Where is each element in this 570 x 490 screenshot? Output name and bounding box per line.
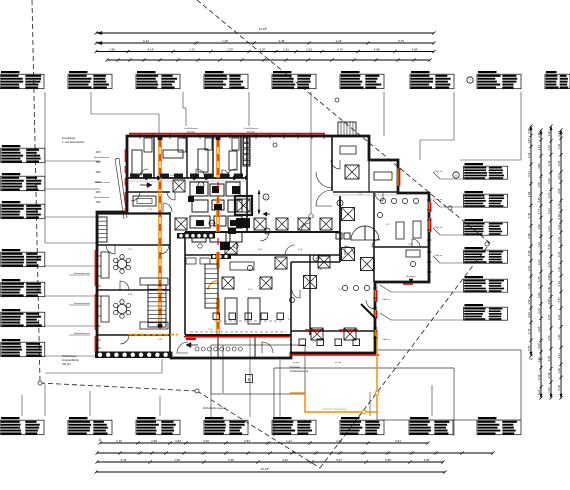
svg-text:Freispielfläche: Freispielfläche	[62, 358, 79, 362]
svg-text:5,20: 5,20	[547, 130, 551, 136]
svg-text:24,18⁵: 24,18⁵	[259, 27, 269, 31]
svg-text:3,80: 3,80	[537, 224, 541, 230]
svg-text:1,37: 1,37	[527, 328, 531, 334]
svg-text:3,65: 3,65	[537, 326, 541, 332]
svg-text:1,50: 1,50	[527, 299, 531, 305]
svg-text:5,67: 5,67	[557, 297, 561, 303]
svg-text:6,51: 6,51	[527, 265, 531, 271]
svg-text:5,43: 5,43	[121, 458, 127, 462]
svg-text:4,41: 4,41	[557, 353, 561, 359]
svg-text:6,79: 6,79	[337, 47, 343, 51]
svg-text:3,10: 3,10	[116, 439, 122, 443]
svg-text:xx xxx: xx xxx	[293, 362, 300, 364]
svg-text:Türkl. xx: Türkl. xx	[434, 198, 443, 201]
svg-text:5,87: 5,87	[260, 47, 266, 51]
svg-text:1,68: 1,68	[174, 458, 180, 462]
svg-text:4,86: 4,86	[537, 163, 541, 169]
svg-text:1,66: 1,66	[557, 368, 561, 374]
svg-text:6,53: 6,53	[557, 251, 561, 257]
svg-text:6,16: 6,16	[557, 203, 561, 209]
svg-text:1,78: 1,78	[547, 160, 551, 166]
svg-text:3,77: 3,77	[547, 226, 551, 232]
svg-text:1,97: 1,97	[537, 241, 541, 247]
svg-text:1,39: 1,39	[527, 283, 531, 289]
svg-text:2,64: 2,64	[557, 314, 561, 320]
svg-text:Bestandsfenster: Bestandsfenster	[74, 272, 90, 275]
svg-text:1,21: 1,21	[189, 47, 195, 51]
svg-text:6,93: 6,93	[557, 213, 561, 219]
svg-text:4,69: 4,69	[557, 188, 561, 194]
svg-text:5,64: 5,64	[547, 243, 551, 249]
svg-text:4,76: 4,76	[547, 335, 551, 341]
svg-text:5,47: 5,47	[336, 458, 342, 462]
svg-text:2,23: 2,23	[336, 39, 342, 43]
svg-text:6,78: 6,78	[537, 276, 541, 282]
svg-text:4,38: 4,38	[374, 47, 380, 51]
svg-text:5,25: 5,25	[228, 458, 234, 462]
svg-text:Türkl. xx: Türkl. xx	[382, 338, 391, 341]
svg-text:Bestandsfenster: Bestandsfenster	[94, 156, 110, 159]
svg-text:3,83: 3,83	[424, 458, 430, 462]
svg-text:2,79: 2,79	[547, 261, 551, 267]
svg-text:2,26: 2,26	[547, 178, 551, 184]
svg-text:4,86: 4,86	[537, 197, 541, 203]
svg-text:xx xxx: xx xxx	[335, 362, 342, 364]
svg-text:3,92: 3,92	[537, 292, 541, 298]
svg-text:Bestandsfenster: Bestandsfenster	[94, 196, 110, 199]
svg-text:1,53: 1,53	[547, 387, 551, 393]
svg-text:1. vermaute Einheit: 1. vermaute Einheit	[62, 140, 85, 144]
svg-text:Türkl. xx: Türkl. xx	[434, 170, 443, 173]
svg-text:6,89: 6,89	[385, 458, 391, 462]
svg-text:Dachfl.fenster: Dachfl.fenster	[244, 127, 258, 130]
svg-text:5,50: 5,50	[527, 345, 531, 351]
svg-text:5,38: 5,38	[527, 250, 531, 256]
svg-text:6,24: 6,24	[143, 39, 149, 43]
svg-text:1,81: 1,81	[283, 47, 289, 51]
svg-text:Zufahrt Tiefgarage: Zufahrt Tiefgarage	[323, 407, 348, 411]
svg-text:5,32: 5,32	[537, 374, 541, 380]
svg-text:Terrasse: Terrasse	[290, 365, 301, 369]
svg-text:Bestand saniert: Bestand saniert	[95, 181, 111, 184]
svg-text:6,79: 6,79	[398, 39, 404, 43]
svg-text:6,22: 6,22	[557, 224, 561, 230]
svg-text:4,44: 4,44	[527, 212, 531, 218]
svg-text:Dachfl.fenster: Dachfl.fenster	[184, 127, 198, 130]
svg-text:2,34: 2,34	[557, 281, 561, 287]
svg-text:1,72: 1,72	[547, 145, 551, 151]
svg-text:E: E	[248, 377, 251, 382]
svg-text:Wohnfläche gesamt: Wohnfläche gesamt	[203, 406, 226, 410]
svg-text:5,31: 5,31	[547, 208, 551, 214]
svg-text:4,44: 4,44	[527, 312, 531, 318]
svg-text:4,22: 4,22	[336, 439, 342, 443]
svg-text:4,25: 4,25	[547, 355, 551, 361]
svg-text:6,24: 6,24	[537, 259, 541, 265]
svg-text:2,49: 2,49	[547, 286, 551, 292]
svg-text:1,45: 1,45	[222, 39, 228, 43]
svg-text:6,57: 6,57	[547, 314, 551, 320]
svg-text:1,22: 1,22	[557, 143, 561, 149]
svg-text:2,38: 2,38	[547, 372, 551, 378]
svg-text:3,54: 3,54	[395, 439, 401, 443]
svg-text:1,87: 1,87	[527, 138, 531, 144]
svg-text:4,85: 4,85	[412, 47, 418, 51]
svg-text:6,70: 6,70	[547, 192, 551, 198]
svg-text:3,29: 3,29	[203, 439, 209, 443]
svg-text:KZ: KZ	[539, 357, 543, 361]
svg-text:2,99: 2,99	[151, 439, 157, 443]
svg-text:2,39: 2,39	[227, 47, 233, 51]
svg-text:24,18⁵: 24,18⁵	[261, 467, 271, 471]
svg-text:6,98: 6,98	[547, 275, 551, 281]
svg-text:2,68: 2,68	[537, 343, 541, 349]
svg-text:2,38: 2,38	[279, 39, 285, 43]
svg-text:Bestandsfenster: Bestandsfenster	[74, 302, 90, 305]
svg-text:Grundstück: Grundstück	[62, 136, 76, 140]
svg-text:2,97: 2,97	[537, 145, 541, 151]
svg-text:6,65: 6,65	[557, 160, 561, 166]
svg-text:Türkl. xx: Türkl. xx	[434, 254, 443, 257]
svg-text:2,53: 2,53	[244, 439, 250, 443]
svg-text:1,59: 1,59	[537, 182, 541, 188]
svg-text:5,22: 5,22	[557, 384, 561, 390]
svg-text:4,14: 4,14	[148, 47, 154, 51]
svg-text:3,24: 3,24	[537, 308, 541, 314]
svg-text:6,31: 6,31	[527, 152, 531, 158]
svg-text:Türkl. xx: Türkl. xx	[382, 298, 391, 301]
svg-text:Türkl. xx: Türkl. xx	[434, 226, 443, 229]
svg-text:KZ: KZ	[529, 357, 533, 361]
svg-text:2,93: 2,93	[306, 47, 312, 51]
svg-text:1,61: 1,61	[557, 236, 561, 242]
svg-text:4,95: 4,95	[547, 299, 551, 305]
svg-text:4,53: 4,53	[175, 439, 181, 443]
svg-text:Bestandsfenster: Bestandsfenster	[74, 332, 90, 335]
svg-text:Kinderkrippe: Kinderkrippe	[62, 354, 77, 358]
svg-text:Kinderkrippe +0: Kinderkrippe +0	[290, 369, 309, 373]
svg-text:4,20: 4,20	[282, 458, 288, 462]
svg-text:290 qm: 290 qm	[62, 362, 71, 366]
svg-text:5,41: 5,41	[527, 171, 531, 177]
svg-text:2,45: 2,45	[557, 334, 561, 340]
svg-text:4,77: 4,77	[537, 208, 541, 214]
svg-text:3,64: 3,64	[557, 174, 561, 180]
svg-text:1,41: 1,41	[557, 266, 561, 272]
svg-text:6,98: 6,98	[527, 233, 531, 239]
svg-text:Ausgang: Ausgang	[407, 275, 416, 278]
svg-text:1,85: 1,85	[109, 47, 115, 51]
svg-text:2,69: 2,69	[527, 191, 531, 197]
svg-text:1,21: 1,21	[286, 439, 292, 443]
